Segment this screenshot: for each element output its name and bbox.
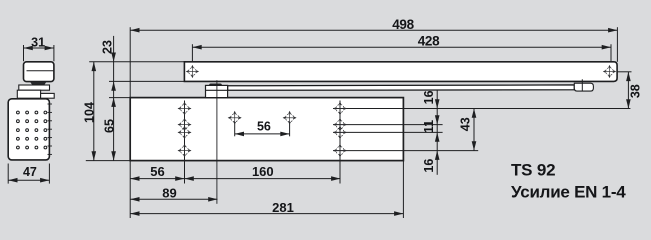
- side view: slide channel cross-section: [24, 62, 54, 82]
- side view mounting hole dots: [17, 111, 47, 149]
- pinion bracket: [206, 85, 228, 97]
- bottom dim 56 line: [130, 178, 184, 180]
- svg-text:16: 16: [422, 90, 436, 104]
- body screw right column row3: [333, 125, 347, 139]
- svg-text:160: 160: [252, 164, 274, 179]
- dim 47 extensions: [7, 164, 9, 184]
- dimension 428 right extension: [610, 44, 612, 62]
- body screw right column row1: [333, 102, 347, 116]
- svg-text:TS 92: TS 92: [511, 161, 555, 180]
- pinion axis line: [216, 80, 218, 204]
- side view: dim 47 line: [8, 179, 49, 181]
- body screw column right vertical line: [339, 101, 341, 184]
- svg-text:23: 23: [100, 40, 114, 54]
- screw row line 4 extending right: [333, 150, 478, 152]
- dim 23 arrow up to rail bottom: [111, 81, 116, 90]
- side view: pinion boss: [17, 90, 40, 98]
- svg-text:104: 104: [83, 102, 97, 123]
- bracket divider: [206, 89, 228, 91]
- dimension 428 line: [192, 46, 611, 48]
- dim 65 arrow down to body bottom: [111, 151, 116, 160]
- body screw right column row2: [333, 118, 347, 132]
- svg-text:498: 498: [392, 17, 414, 32]
- body screw left column row1: [178, 102, 192, 116]
- svg-text:43: 43: [459, 117, 473, 131]
- inner dim 56 line: [235, 133, 290, 135]
- pinion bracket lip: [210, 84, 222, 85]
- arm slider block: [574, 83, 593, 91]
- bottom extension body right: [402, 161, 404, 218]
- dim 38 extension line: [617, 71, 631, 73]
- arm lever: [228, 85, 575, 90]
- dim 23 arrow down to rail top: [111, 53, 116, 62]
- body screw left column row2: [178, 118, 192, 132]
- left extension line rail top: [89, 61, 184, 63]
- svg-text:56: 56: [257, 120, 271, 134]
- channel inner line: [27, 70, 54, 72]
- body screw right column row4: [333, 144, 347, 158]
- side view right edge adjustment ticks: [48, 104, 53, 154]
- dimension 428 left extension: [191, 44, 193, 62]
- left extension line rail bottom: [109, 80, 184, 82]
- bottom dim 160 line: [185, 178, 341, 180]
- svg-text:56: 56: [150, 164, 164, 179]
- body screw pair left: [228, 111, 242, 125]
- dimension 498 right extension: [616, 27, 618, 62]
- slider axis tick: [581, 79, 583, 91]
- dim 16 bottom arrow up: [435, 151, 440, 160]
- dim 16 top arrow down: [435, 99, 440, 108]
- svg-text:11: 11: [422, 120, 436, 133]
- dim 11 arrow up: [435, 132, 440, 141]
- bottom dim 89 line: [130, 198, 217, 200]
- bottom extension body left: [129, 161, 131, 218]
- body screw left column row3: [178, 125, 192, 139]
- svg-text:428: 428: [418, 33, 440, 48]
- svg-text:281: 281: [272, 200, 294, 215]
- svg-text:Усилие EN 1-4: Усилие EN 1-4: [511, 183, 626, 202]
- svg-text:65: 65: [102, 119, 116, 133]
- dim 11 arrow down: [435, 115, 440, 124]
- body screw left column row4: [178, 144, 192, 158]
- dimension 23 / 65 shared line: [113, 36, 115, 161]
- dim 31 extensions: [23, 45, 25, 61]
- svg-text:47: 47: [23, 165, 37, 179]
- side view: closer body: [8, 99, 49, 160]
- svg-text:31: 31: [31, 35, 45, 49]
- svg-text:16: 16: [422, 159, 436, 173]
- svg-text:89: 89: [162, 185, 176, 200]
- side view: side tab: [41, 93, 55, 98]
- svg-text:38: 38: [629, 84, 643, 98]
- rail screw left: [186, 65, 199, 78]
- inner dim 56 extension stubs: [234, 124, 236, 136]
- dimension 498 left extension (body left edge up): [129, 27, 131, 97]
- dim 38 line: [627, 72, 629, 109]
- dimension 498 line: [130, 29, 617, 31]
- closer body (top view): [130, 98, 403, 161]
- screw row line 2 extending right: [333, 124, 443, 126]
- rail screw right: [603, 65, 616, 78]
- right dims shared vertical line (16/11/16): [436, 90, 438, 175]
- dimension 104 line: [93, 62, 95, 161]
- body screw pair right: [283, 111, 297, 125]
- dim 43 line: [473, 109, 475, 151]
- side view: dark connector foot: [30, 82, 47, 86]
- left extension line body top: [109, 97, 130, 99]
- side view: arm end bar: [19, 85, 50, 90]
- side view: dim 31 line: [24, 47, 54, 49]
- dim 65 arrow up to body top: [111, 98, 116, 107]
- screw row line 1 extending right: [333, 108, 630, 110]
- left extension line body bottom: [86, 160, 130, 162]
- screw row line 3 extending right: [333, 131, 443, 133]
- bottom dim 281 line: [130, 213, 403, 215]
- body screw column left vertical line: [184, 101, 186, 184]
- slide rail (top view): [184, 62, 617, 82]
